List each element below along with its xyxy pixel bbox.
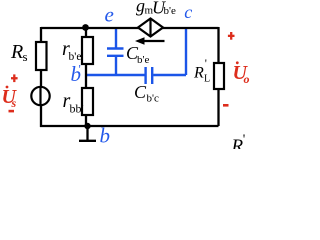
svg-text:b: b	[100, 124, 111, 148]
svg-text:b'e: b'e	[164, 5, 176, 17]
svg-text:bb': bb'	[70, 102, 84, 116]
svg-text:b'c: b'c	[147, 93, 159, 105]
svg-text:e: e	[105, 3, 114, 27]
svg-text:s: s	[11, 96, 17, 110]
svg-text:L: L	[204, 74, 210, 85]
svg-text:o: o	[244, 72, 250, 86]
svg-text:R: R	[10, 41, 23, 63]
svg-text:': '	[205, 56, 207, 70]
svg-text:': '	[79, 62, 81, 77]
svg-text:R: R	[231, 136, 244, 149]
svg-text:': '	[243, 133, 246, 148]
svg-text:R: R	[193, 65, 204, 82]
svg-text:C: C	[134, 82, 147, 102]
svg-text:s: s	[23, 49, 28, 64]
svg-text:c: c	[184, 2, 192, 22]
svg-text:b'e: b'e	[137, 54, 149, 66]
